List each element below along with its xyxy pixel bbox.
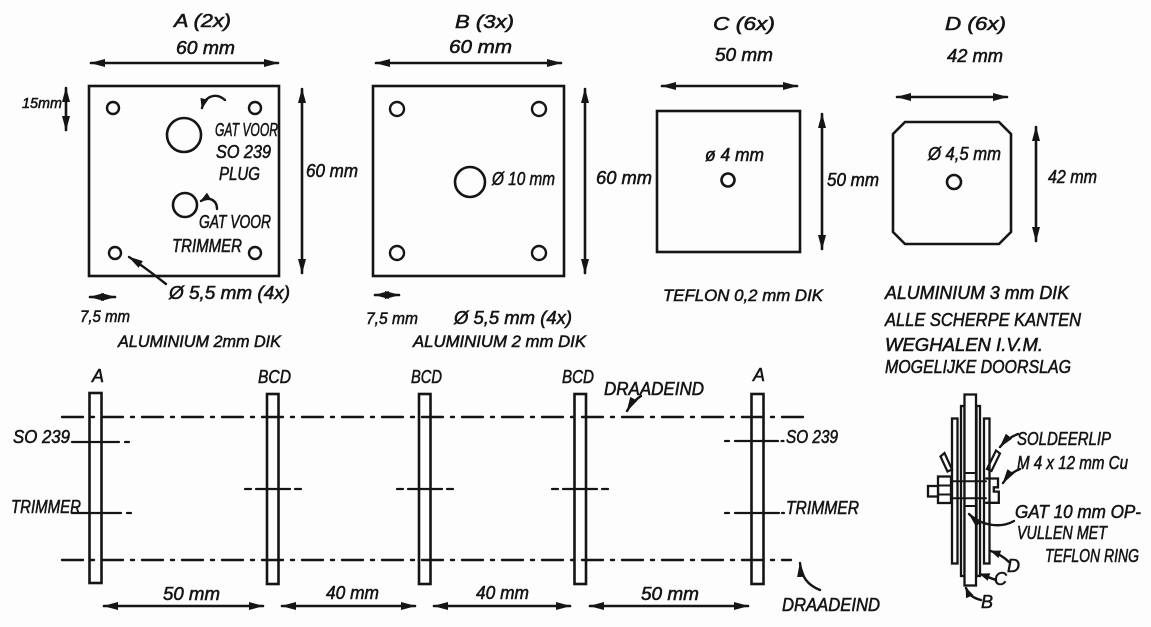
svg-text:BCD: BCD [258,367,291,387]
svg-text:ALLE SCHERPE KANTEN: ALLE SCHERPE KANTEN [884,310,1082,330]
svg-text:60 mm: 60 mm [176,38,235,58]
svg-text:7,5 mm: 7,5 mm [366,309,418,328]
svg-text:TRIMMER: TRIMMER [11,497,81,517]
svg-text:D (6x): D (6x) [945,14,1006,34]
svg-text:SO 239: SO 239 [13,427,70,447]
svg-text:ALUMINIUM 3 mm DIK: ALUMINIUM 3 mm DIK [884,283,1070,303]
svg-text:MOGELIJKE DOORSLAG: MOGELIJKE DOORSLAG [885,357,1071,377]
svg-text:60 mm: 60 mm [306,161,358,181]
svg-text:SO 239: SO 239 [216,142,271,162]
svg-text:ø 4 mm: ø 4 mm [705,145,764,165]
svg-text:B: B [981,592,993,612]
svg-text:40 mm: 40 mm [476,583,529,603]
svg-text:GAT VOOR: GAT VOOR [199,212,271,232]
svg-text:TEFLON 0,2 mm DIK: TEFLON 0,2 mm DIK [663,286,824,305]
svg-text:C: C [994,569,1008,589]
svg-text:WEGHALEN I.V.M.: WEGHALEN I.V.M. [885,335,1043,355]
svg-text:DRAADEIND: DRAADEIND [604,379,704,399]
svg-text:50 mm: 50 mm [641,584,699,604]
svg-text:60 mm: 60 mm [596,168,652,188]
svg-text:C (6x): C (6x) [713,14,775,34]
svg-text:TRIMMER: TRIMMER [786,498,859,518]
svg-text:M 4 x 12 mm Cu: M 4 x 12 mm Cu [1017,453,1128,473]
svg-text:A: A [752,365,765,385]
svg-text:7,5 mm: 7,5 mm [80,307,130,326]
svg-text:Ø 4,5 mm: Ø 4,5 mm [927,144,1001,164]
svg-text:A (2x): A (2x) [173,11,231,31]
svg-text:40 mm: 40 mm [326,583,379,603]
svg-text:42 mm: 42 mm [1048,167,1097,187]
svg-text:ALUMINIUM 2mm DIK: ALUMINIUM 2mm DIK [117,332,282,351]
svg-text:BCD: BCD [411,367,442,387]
svg-text:Ø 10 mm: Ø 10 mm [491,169,555,189]
svg-text:A: A [91,366,104,386]
svg-text:ALUMINIUM 2 mm DIK: ALUMINIUM 2 mm DIK [412,332,587,351]
svg-text:50 mm: 50 mm [715,45,773,65]
svg-text:42 mm: 42 mm [947,46,1003,66]
svg-text:PLUG: PLUG [219,164,260,184]
svg-text:TEFLON RING: TEFLON RING [1045,546,1139,566]
svg-text:SOLDEERLIP: SOLDEERLIP [1017,429,1111,449]
svg-text:Ø 5,5 mm (4x): Ø 5,5 mm (4x) [168,283,290,303]
svg-text:50 mm: 50 mm [827,170,879,190]
svg-text:Ø 5,5 mm (4x): Ø 5,5 mm (4x) [453,308,572,328]
svg-text:TRIMMER: TRIMMER [172,236,242,256]
svg-text:GAT VOOR: GAT VOOR [215,120,278,140]
svg-text:DRAADEIND: DRAADEIND [782,595,880,615]
svg-text:60 mm: 60 mm [449,37,512,57]
svg-text:GAT 10 mm OP-: GAT 10 mm OP- [1015,502,1141,522]
svg-text:B (3x): B (3x) [455,12,514,32]
svg-text:BCD: BCD [562,367,594,387]
svg-text:15mm: 15mm [22,95,62,112]
svg-text:50 mm: 50 mm [163,584,220,604]
svg-text:SO 239: SO 239 [786,427,838,447]
svg-text:VULLEN MET: VULLEN MET [1017,523,1109,543]
svg-text:D: D [1007,556,1020,576]
